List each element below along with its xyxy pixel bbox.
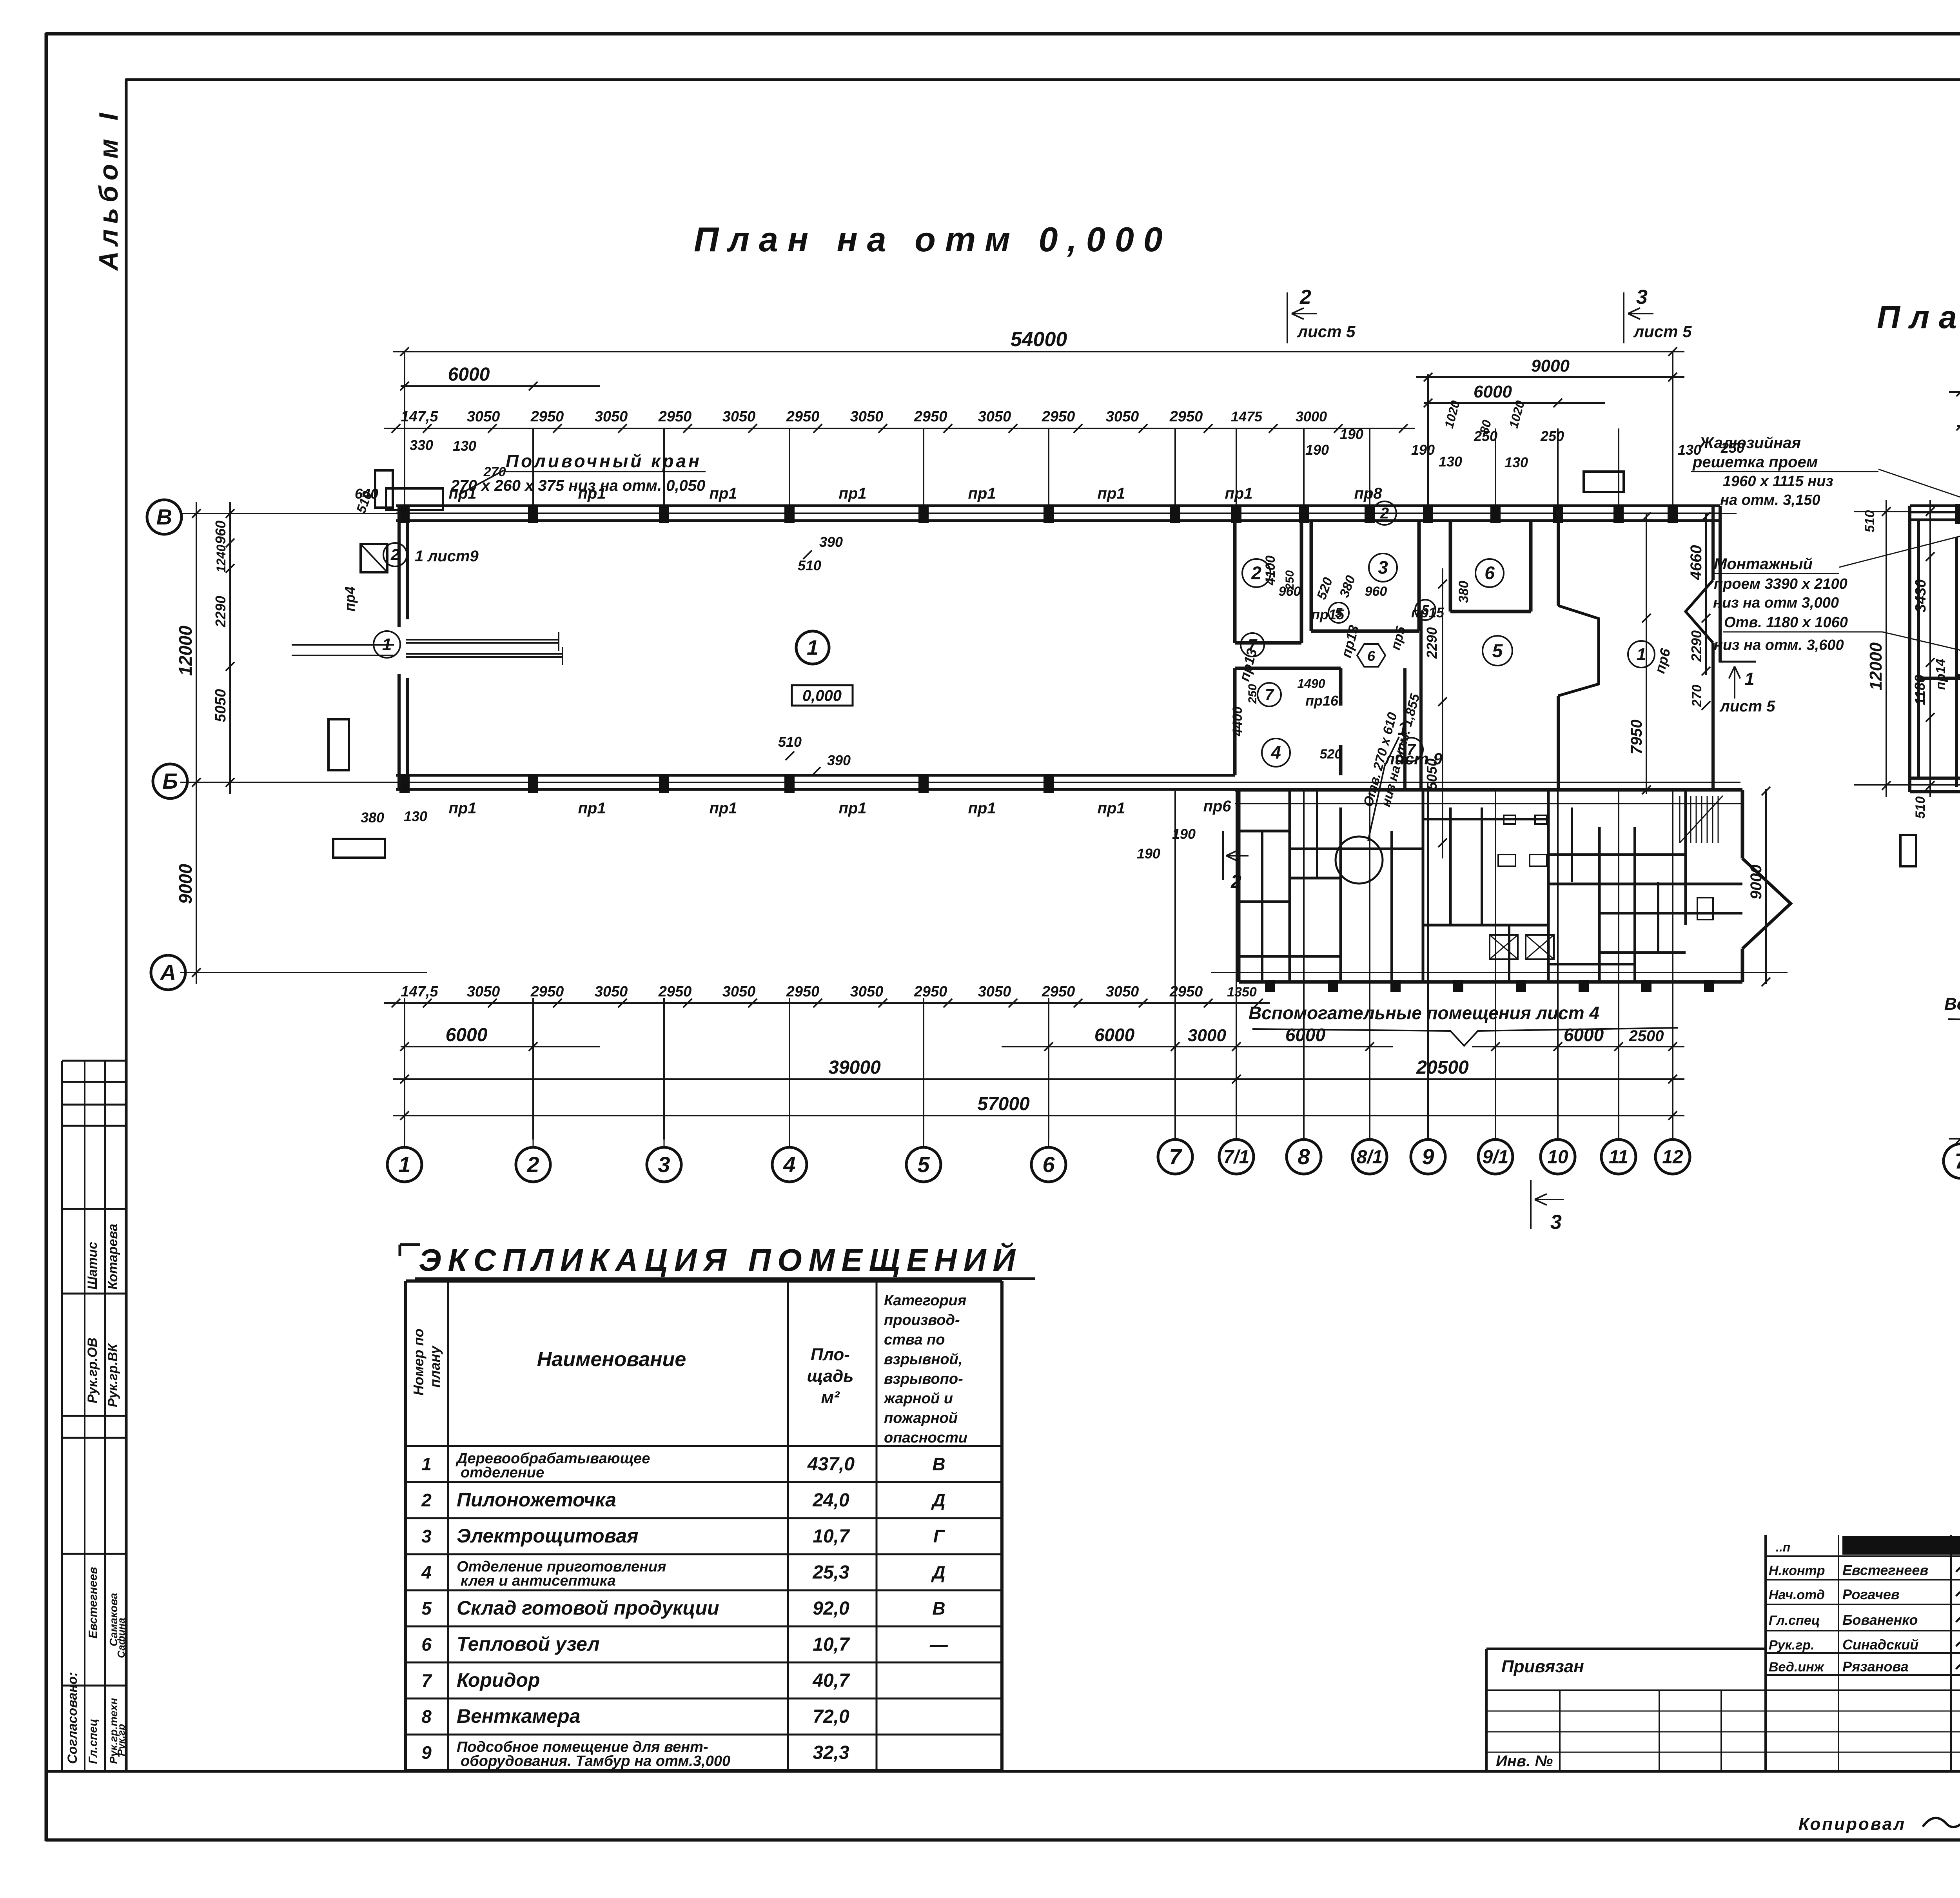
svg-text:3050: 3050 — [595, 983, 628, 1000]
svg-text:пр8: пр8 — [1354, 485, 1382, 502]
circled 1 entrance — [374, 631, 400, 658]
svg-text:2: 2 — [1299, 286, 1311, 308]
svg-text:взрывной,: взрывной, — [884, 1351, 962, 1368]
axis circle Б left — [153, 764, 187, 798]
svg-text:390: 390 — [819, 534, 843, 550]
svg-text:6000: 6000 — [448, 364, 490, 385]
room 4 circle — [1262, 739, 1290, 767]
room 6 circle — [1475, 559, 1504, 587]
svg-text:Д: Д — [931, 1490, 945, 1510]
aux wc fixtures — [1498, 855, 1515, 866]
dim 57000 — [393, 1115, 1684, 1116]
entrance porch lines left — [292, 644, 394, 646]
svg-text:1: 1 — [1744, 669, 1755, 689]
axis line В — [180, 513, 1737, 514]
svg-text:6: 6 — [1042, 1152, 1055, 1177]
svg-text:3050: 3050 — [978, 983, 1011, 1000]
axis circle А left — [151, 955, 185, 990]
room 1 level mark 0.000 — [792, 685, 853, 706]
left wall of main hall — [397, 506, 401, 627]
callout circle 1 лист9 — [1336, 836, 1383, 884]
svg-text:2: 2 — [1230, 871, 1241, 892]
room 5 circle — [1483, 636, 1512, 666]
svg-text:72,0: 72,0 — [813, 1706, 849, 1727]
svg-text:3000: 3000 — [1296, 408, 1327, 425]
svg-text:Рук.гр: Рук.гр — [115, 1724, 127, 1756]
axis circles bottom right plan — [1944, 1144, 1960, 1178]
bottom dims right plan — [1949, 1138, 1960, 1140]
svg-text:3050: 3050 — [978, 408, 1011, 425]
section mark 2 bottom left of aux — [1222, 831, 1224, 880]
svg-text:4660: 4660 — [1688, 545, 1705, 581]
svg-text:Тепловой узел: Тепловой узел — [457, 1633, 600, 1655]
svg-text:Альбом I: Альбом I — [94, 107, 123, 271]
svg-text:190: 190 — [1305, 442, 1329, 458]
svg-text:510: 510 — [1913, 797, 1928, 819]
room 1 circle — [796, 631, 829, 664]
svg-text:Рязанова: Рязанова — [1842, 1658, 1909, 1675]
dimension 6000 top left — [401, 385, 600, 387]
bottom dims 6000 3000 6000 middle — [1002, 1046, 1393, 1047]
hexagon 6 mark — [1357, 644, 1385, 667]
svg-text:24,0: 24,0 — [812, 1490, 849, 1511]
svg-text:6: 6 — [1367, 648, 1376, 664]
dim 9000 right of aux block — [1765, 789, 1767, 984]
svg-text:лист 5: лист 5 — [1719, 698, 1775, 715]
svg-text:В: В — [932, 1598, 945, 1619]
svg-text:8: 8 — [1298, 1144, 1310, 1169]
svg-text:2: 2 — [390, 546, 399, 564]
aux stairs hatch — [1679, 796, 1681, 843]
svg-text:План на отм 3,000: План на отм 3,000 — [1877, 299, 1960, 335]
dimension 6000 top right — [1424, 402, 1605, 404]
svg-text:Н.контр: Н.контр — [1769, 1563, 1825, 1578]
room 8 left wall — [1955, 537, 1958, 787]
svg-text:3: 3 — [1550, 1211, 1562, 1234]
svg-text:пр1: пр1 — [709, 485, 737, 502]
svg-text:9/1: 9/1 — [1483, 1147, 1509, 1167]
svg-text:Сафина: Сафина — [115, 1618, 127, 1658]
svg-text:9000: 9000 — [1531, 356, 1570, 376]
svg-text:Б: Б — [162, 769, 178, 793]
svg-text:Гл.спец: Гл.спец — [1769, 1613, 1820, 1628]
svg-text:Рук.гр.ВК: Рук.гр.ВК — [105, 1343, 120, 1407]
circled 1 right part — [1628, 641, 1655, 668]
axis grid vertical lines main plan — [404, 428, 405, 506]
svg-text:пр1: пр1 — [578, 485, 606, 502]
aux internal walls — [1289, 790, 1291, 982]
svg-text:проем 3390 x 2100: проем 3390 x 2100 — [1714, 576, 1847, 592]
svg-text:3050: 3050 — [1106, 983, 1139, 1000]
aux pier stubs bottom — [1265, 980, 1275, 992]
right end wall main building — [1711, 506, 1715, 580]
svg-text:Г: Г — [933, 1526, 945, 1546]
svg-text:250: 250 — [1540, 428, 1564, 444]
svg-text:Рогачев: Рогачев — [1842, 1586, 1900, 1602]
svg-text:3050: 3050 — [722, 983, 756, 1000]
svg-text:Отв. 1180 x 1060: Отв. 1180 x 1060 — [1724, 614, 1848, 631]
dims left of right plan — [1886, 500, 1887, 797]
svg-text:3050: 3050 — [850, 983, 884, 1000]
aux extra partitions — [1261, 831, 1263, 982]
axis circles bottom row 1-6 — [404, 1116, 405, 1147]
section mark 3 bottom — [1530, 1180, 1532, 1229]
section mark 1 лист5 between plans — [1719, 661, 1756, 663]
svg-text:пр1: пр1 — [448, 800, 476, 817]
svg-text:лист 9: лист 9 — [1384, 749, 1443, 768]
svg-text:190: 190 — [1340, 426, 1363, 442]
svg-text:лист 5: лист 5 — [1633, 322, 1692, 341]
circled 7 corridor — [1241, 633, 1264, 657]
walls right plan upper — [1908, 506, 1911, 792]
svg-text:Вспомогательные помещения лист: Вспомогательные помещения лист 4 — [1249, 1003, 1599, 1023]
svg-text:2: 2 — [526, 1152, 539, 1177]
svg-text:510: 510 — [798, 557, 821, 573]
svg-text:6000: 6000 — [1474, 382, 1512, 401]
svg-text:9: 9 — [1422, 1144, 1434, 1169]
svg-text:12000: 12000 — [175, 626, 196, 676]
svg-text:Наименование: Наименование — [537, 1348, 686, 1371]
top dims right plan — [1949, 391, 1960, 393]
svg-text:6000: 6000 — [1285, 1025, 1326, 1045]
svg-text:опасности: опасности — [884, 1430, 967, 1446]
svg-text:54000: 54000 — [1011, 328, 1067, 351]
svg-text:пр4: пр4 — [342, 586, 358, 611]
svg-text:5: 5 — [421, 1598, 432, 1619]
svg-text:5050: 5050 — [212, 689, 229, 722]
svg-text:8/1: 8/1 — [1357, 1147, 1383, 1167]
svg-text:5: 5 — [917, 1152, 930, 1177]
svg-text:130: 130 — [1504, 454, 1528, 470]
svg-text:147,5: 147,5 — [401, 983, 438, 1000]
section mark 2 лист5 top — [1287, 292, 1288, 343]
svg-text:пр1: пр1 — [1097, 800, 1125, 817]
bottom dim 6000 left — [401, 1046, 600, 1047]
middle cells walls — [1956, 674, 1960, 677]
top wall В of main building — [396, 504, 1720, 507]
svg-text:лист 5: лист 5 — [1297, 322, 1356, 341]
svg-text:1: 1 — [398, 1152, 410, 1177]
svg-text:отделение: отделение — [461, 1464, 544, 1481]
svg-text:решетка проем: решетка проем — [1692, 454, 1818, 471]
svg-text:190: 190 — [1137, 846, 1160, 862]
svg-text:пр1: пр1 — [838, 485, 866, 502]
svg-text:190: 190 — [1172, 826, 1196, 842]
svg-text:взрывопо-: взрывопо- — [884, 1371, 963, 1387]
svg-text:960: 960 — [1365, 584, 1387, 599]
svg-text:Нач.отд: Нач.отд — [1769, 1588, 1825, 1602]
svg-text:пр1: пр1 — [968, 485, 996, 502]
svg-text:510: 510 — [778, 734, 802, 750]
axis line А — [180, 972, 427, 973]
room 3 circle — [1369, 553, 1397, 582]
svg-text:Привязан: Привязан — [1501, 1657, 1584, 1676]
svg-text:1960 x 1115 низ: 1960 x 1115 низ — [1723, 473, 1833, 490]
svg-text:План на отм 0,000: План на отм 0,000 — [694, 220, 1172, 259]
pr4 ramp top left — [361, 544, 387, 572]
svg-text:Шатис: Шатис — [85, 1242, 100, 1290]
circled 2 on top wall — [1373, 501, 1396, 525]
signature table — [1764, 1535, 1767, 1771]
svg-text:2950: 2950 — [1042, 408, 1075, 425]
svg-text:130: 130 — [404, 808, 427, 824]
svg-text:390: 390 — [827, 752, 851, 768]
svg-text:7: 7 — [1265, 686, 1274, 704]
svg-text:пр1: пр1 — [838, 800, 866, 817]
svg-text:7: 7 — [1955, 1149, 1960, 1173]
svg-text:7/1: 7/1 — [1223, 1147, 1250, 1167]
dims between plans — [1705, 513, 1707, 675]
svg-text:5: 5 — [1492, 641, 1503, 661]
outside slab top middle — [1584, 472, 1624, 492]
svg-text:низ на отм 3,000: низ на отм 3,000 — [1713, 595, 1839, 611]
svg-text:10: 10 — [1547, 1147, 1568, 1167]
svg-text:4: 4 — [783, 1152, 795, 1177]
svg-text:Монтажный: Монтажный — [1714, 555, 1813, 573]
dim 2290 5050 room5 — [1442, 568, 1443, 858]
svg-text:3050: 3050 — [722, 408, 756, 425]
svg-text:4: 4 — [1270, 742, 1281, 763]
svg-text:4100: 4100 — [1263, 555, 1278, 586]
svg-text:437,0: 437,0 — [807, 1454, 855, 1475]
svg-text:3050: 3050 — [467, 408, 500, 425]
svg-text:жарной и: жарной и — [883, 1390, 953, 1407]
svg-text:380: 380 — [1456, 581, 1471, 603]
svg-text:пр1: пр1 — [709, 800, 737, 817]
outside slabs left — [375, 470, 393, 508]
aux block bay arrow right — [1742, 858, 1791, 949]
svg-text:пожарной: пожарной — [884, 1410, 958, 1426]
svg-text:—: — — [929, 1634, 948, 1655]
svg-text:520: 520 — [1320, 747, 1342, 762]
svg-text:9000: 9000 — [1748, 865, 1765, 900]
svg-text:пр1: пр1 — [968, 800, 996, 817]
svg-text:пр6: пр6 — [1203, 798, 1231, 815]
svg-text:Жалюзийная: Жалюзийная — [1699, 434, 1801, 452]
svg-text:2290: 2290 — [212, 596, 229, 628]
svg-text:2950: 2950 — [658, 408, 692, 425]
svg-text:1: 1 — [807, 636, 818, 659]
svg-text:4: 4 — [421, 1562, 432, 1582]
svg-text:Вед.инж: Вед.инж — [1769, 1660, 1825, 1675]
svg-text:Венткамера: Венткамера — [457, 1705, 580, 1727]
svg-text:2: 2 — [421, 1490, 432, 1510]
svg-text:960: 960 — [212, 521, 229, 544]
svg-text:клея и антисептика: клея и антисептика — [461, 1573, 616, 1589]
svg-text:2: 2 — [1251, 563, 1261, 583]
pr5 bay — [1558, 606, 1599, 696]
svg-text:147,5: 147,5 — [401, 408, 438, 425]
svg-text:В: В — [156, 504, 172, 529]
svg-text:6: 6 — [421, 1634, 432, 1655]
svg-text:3: 3 — [658, 1152, 670, 1177]
svg-text:190: 190 — [1411, 442, 1435, 458]
svg-text:6000: 6000 — [446, 1025, 488, 1045]
room 4 walls — [1233, 668, 1237, 775]
svg-text:250: 250 — [1474, 428, 1497, 444]
svg-text:3430: 3430 — [1913, 579, 1929, 613]
svg-text:пр15: пр15 — [1411, 604, 1445, 621]
bottom dims row fine main plan — [384, 1002, 1270, 1004]
section mark 3 лист5 top — [1623, 292, 1624, 343]
svg-text:2: 2 — [1380, 505, 1389, 522]
svg-text:2950: 2950 — [530, 983, 564, 1000]
room 2 circle — [1242, 559, 1270, 587]
svg-text:11: 11 — [1609, 1147, 1628, 1167]
dimension chain 3050/2950 top — [384, 428, 1415, 429]
svg-text:6: 6 — [1485, 563, 1495, 583]
svg-text:м²: м² — [821, 1388, 840, 1407]
svg-text:Гл.спец: Гл.спец — [87, 1719, 100, 1764]
signature squiggles — [1956, 1564, 1960, 1573]
dim 39000 20500 — [393, 1078, 1684, 1080]
svg-text:Электрощитовая: Электрощитовая — [457, 1525, 639, 1547]
svg-text:40,7: 40,7 — [812, 1670, 850, 1691]
svg-text:1: 1 — [1637, 645, 1646, 664]
svg-text:2290: 2290 — [1688, 630, 1704, 662]
svg-text:на отм. 3,150: на отм. 3,150 — [1720, 492, 1820, 508]
svg-text:2290: 2290 — [1424, 627, 1440, 659]
svg-text:270: 270 — [1690, 685, 1704, 708]
bottom wall Б of main hall — [396, 774, 1235, 777]
svg-text:пр1: пр1 — [448, 485, 476, 502]
sheet outer border — [45, 32, 1960, 36]
svg-text:пр1: пр1 — [1097, 485, 1125, 502]
svg-text:Инв. №: Инв. № — [1496, 1753, 1553, 1770]
svg-text:ЭКСПЛИКАЦИЯ ПОМЕЩЕНИЙ: ЭКСПЛИКАЦИЯ ПОМЕЩЕНИЙ — [419, 1242, 1022, 1277]
svg-text:1: 1 — [382, 635, 392, 654]
svg-text:1180: 1180 — [1912, 675, 1928, 705]
svg-text:2950: 2950 — [658, 983, 692, 1000]
svg-text:ства по: ства по — [884, 1332, 945, 1348]
svg-text:130: 130 — [453, 438, 476, 454]
svg-text:Рук.гр.: Рук.гр. — [1769, 1638, 1815, 1653]
svg-text:2950: 2950 — [786, 983, 820, 1000]
svg-text:10,7: 10,7 — [813, 1526, 850, 1547]
svg-text:Бованенко: Бованенко — [1842, 1612, 1918, 1628]
svg-text:В: В — [932, 1454, 945, 1474]
svg-text:6000: 6000 — [1564, 1025, 1604, 1045]
svg-text:производ-: производ- — [884, 1312, 960, 1328]
svg-text:12000: 12000 — [1866, 642, 1886, 690]
svg-text:9000: 9000 — [175, 864, 196, 904]
bottom dims 6000 2500 right — [1472, 1046, 1684, 1047]
svg-text:20500: 20500 — [1416, 1057, 1469, 1078]
svg-text:3050: 3050 — [595, 408, 628, 425]
svg-text:1 лист9: 1 лист9 — [415, 548, 479, 565]
svg-text:Рук.гр.ОВ: Рук.гр.ОВ — [85, 1337, 100, 1403]
circled 2 near top left + лист9 — [383, 543, 407, 566]
svg-text:250: 250 — [1246, 684, 1259, 704]
svg-text:Синадский: Синадский — [1842, 1637, 1918, 1653]
svg-text:Поливочный кран: Поливочный кран — [506, 451, 702, 471]
svg-text:380: 380 — [361, 809, 384, 826]
svg-text:2950: 2950 — [914, 408, 947, 425]
svg-text:3050: 3050 — [467, 983, 500, 1000]
svg-text:оборудования. Тамбур на отм.3,: оборудования. Тамбур на отм.3,000 — [461, 1753, 730, 1769]
right wall room5 — [1557, 510, 1560, 606]
svg-text:Копировал: Копировал — [1798, 1815, 1906, 1834]
svg-text:10,7: 10,7 — [813, 1634, 850, 1655]
svg-text:3: 3 — [1636, 286, 1648, 308]
svg-text:2950: 2950 — [1169, 983, 1203, 1000]
svg-text:низ на отм. 3,600: низ на отм. 3,600 — [1714, 637, 1844, 653]
svg-text:9: 9 — [421, 1742, 432, 1763]
svg-text:2950: 2950 — [914, 983, 947, 1000]
rooms 2-3-6 walls — [1233, 521, 1237, 643]
left vertical dims main plan — [196, 502, 197, 984]
svg-text:1: 1 — [1397, 719, 1408, 739]
axis horizontals right plan — [1854, 511, 1960, 512]
svg-text:пр16: пр16 — [1305, 693, 1339, 709]
svg-text:Евстегнеев: Евстегнеев — [1842, 1562, 1928, 1578]
svg-text:2950: 2950 — [786, 408, 820, 425]
auxiliary block outer walls — [1235, 788, 1742, 792]
svg-text:25,3: 25,3 — [812, 1562, 849, 1583]
svg-text:12: 12 — [1662, 1147, 1683, 1167]
svg-text:0,000: 0,000 — [802, 687, 842, 704]
svg-text:6000: 6000 — [1094, 1025, 1135, 1045]
bottom wall Б right plan — [1910, 777, 1960, 780]
svg-text:32,3: 32,3 — [813, 1742, 849, 1763]
привязан strip — [1486, 1648, 1766, 1650]
svg-text:1350: 1350 — [1227, 985, 1257, 1000]
approval stamp column — [61, 1061, 63, 1771]
svg-text:3000: 3000 — [1188, 1026, 1226, 1045]
svg-text:92,0: 92,0 — [813, 1598, 849, 1619]
table grid — [404, 1281, 407, 1771]
top wall right plan — [1910, 504, 1960, 507]
svg-text:Коридор: Коридор — [457, 1669, 540, 1691]
axis line Б — [180, 782, 1740, 783]
crane rails room 1 — [406, 639, 559, 641]
svg-text:7: 7 — [1169, 1144, 1182, 1169]
room small 5 circles on wall — [1328, 602, 1349, 623]
svg-text:1490: 1490 — [1297, 677, 1325, 691]
axis circles bottom row 7-12 — [1175, 1116, 1176, 1140]
svg-text:3: 3 — [421, 1526, 432, 1546]
svg-text:плану: плану — [427, 1345, 443, 1388]
svg-text:Д: Д — [931, 1562, 945, 1582]
svg-text:3050: 3050 — [1106, 408, 1139, 425]
svg-text:4400: 4400 — [1230, 706, 1245, 737]
axis circle В left — [147, 500, 181, 534]
svg-text:330: 330 — [410, 437, 433, 453]
svg-text:..п: ..п — [1776, 1540, 1790, 1554]
corridor wall middle — [1403, 668, 1406, 789]
dimension 9000 top — [1416, 376, 1684, 378]
svg-text:7: 7 — [1248, 637, 1258, 654]
svg-text:39000: 39000 — [828, 1057, 881, 1078]
svg-text:Пло-: Пло- — [811, 1345, 850, 1364]
svg-text:1: 1 — [421, 1454, 432, 1474]
svg-text:2950: 2950 — [530, 408, 564, 425]
svg-text:2950: 2950 — [1169, 408, 1203, 425]
svg-text:3050: 3050 — [850, 408, 884, 425]
svg-text:7: 7 — [421, 1670, 432, 1691]
svg-text:пр1: пр1 — [1225, 485, 1252, 502]
svg-text:А: А — [160, 960, 176, 985]
svg-text:Категория: Категория — [884, 1292, 966, 1309]
svg-text:1475: 1475 — [1231, 408, 1263, 425]
svg-text:Согласовано:: Согласовано: — [65, 1672, 80, 1764]
svg-text:57000: 57000 — [977, 1094, 1030, 1114]
svg-text:Пилоножеточка: Пилоножеточка — [457, 1489, 616, 1511]
svg-text:пр1: пр1 — [578, 800, 606, 817]
svg-text:8: 8 — [421, 1706, 432, 1727]
svg-text:250: 250 — [1283, 570, 1296, 590]
svg-text:Евстегнеев: Евстегнеев — [87, 1567, 100, 1639]
